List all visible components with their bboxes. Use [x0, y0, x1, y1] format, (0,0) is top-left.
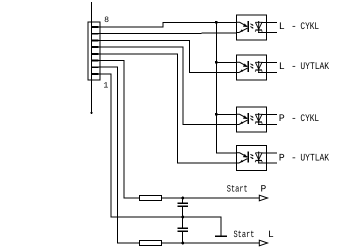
svg-text:L: L	[268, 229, 274, 240]
svg-text:CYKL: CYKL	[300, 22, 319, 33]
svg-text:P: P	[261, 183, 267, 194]
svg-text:Start: Start	[227, 183, 248, 194]
svg-text:-: -	[291, 22, 297, 33]
svg-text:UYTLAK: UYTLAK	[300, 62, 329, 73]
svg-text:CYKL: CYKL	[300, 114, 319, 125]
svg-text:Start: Start	[234, 229, 255, 240]
svg-text:L: L	[279, 62, 285, 73]
svg-text:-: -	[291, 62, 297, 73]
svg-text:-: -	[291, 114, 297, 125]
svg-text:P: P	[279, 114, 285, 125]
svg-text:UYTLAK: UYTLAK	[300, 153, 329, 164]
svg-text:-: -	[291, 153, 297, 164]
svg-text:8: 8	[104, 16, 109, 25]
svg-text:1: 1	[103, 81, 108, 90]
svg-text:P: P	[279, 153, 285, 164]
svg-text:L: L	[279, 22, 285, 33]
